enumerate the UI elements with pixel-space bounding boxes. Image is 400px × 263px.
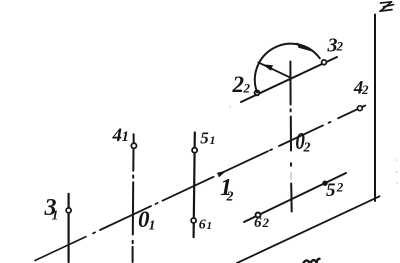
node 3_1 joint circle <box>66 208 71 213</box>
svg-text:5: 5 <box>200 128 209 147</box>
arrow 1_2 on axis <box>217 171 227 178</box>
label x at bottom edge (clipped) <box>304 259 320 263</box>
rotation arc around O2 crossing <box>255 44 320 93</box>
svg-text:1: 1 <box>207 220 213 232</box>
node 4_1 joint circle <box>131 143 136 148</box>
wire: axis dot 1 <box>93 231 95 234</box>
wire: axis dot 4 <box>329 121 331 124</box>
node 3_2 joint circle <box>322 60 327 65</box>
faint scan speckles <box>229 106 398 184</box>
centerline O1 dash a <box>132 149 134 171</box>
node 5_1 joint circle <box>192 148 197 153</box>
svg-text:1: 1 <box>149 219 156 234</box>
wire: main dash-dot axis segment 3 <box>163 177 214 201</box>
svg-text:4: 4 <box>112 125 123 146</box>
centerline O2 dot a <box>290 109 292 111</box>
x axis diagonal line bottom right <box>237 196 380 263</box>
label Z (hand-written with crossbar) <box>380 2 394 11</box>
centerline O2 dash c through crossing with link 6_2-5_2 <box>290 184 293 212</box>
node 6_1 joint circle <box>191 218 196 223</box>
svg-text:1: 1 <box>52 209 59 224</box>
svg-text:6: 6 <box>254 215 262 231</box>
node 4_2 joint circle <box>358 106 363 111</box>
centerline O1 dash c <box>132 247 134 262</box>
node 2_2 joint circle <box>255 91 260 96</box>
wire: axis dot 3 <box>270 148 272 151</box>
rotation arc arrowhead (clockwise) <box>297 42 314 52</box>
radius arrow from crossing to arc <box>258 62 289 77</box>
wire: axis dot 2 <box>156 203 158 204</box>
centerline through O1 (vertical dash-dot) stub above node 4_1 <box>133 134 135 143</box>
svg-text:6: 6 <box>199 217 206 232</box>
svg-text:2: 2 <box>361 82 369 97</box>
svg-text:2: 2 <box>232 72 245 97</box>
svg-text:5: 5 <box>326 180 336 201</box>
link line through node 3_1 (vertical) <box>67 194 69 262</box>
svg-text:2: 2 <box>262 215 270 230</box>
centerline O2 faint dash <box>290 173 292 180</box>
centerline O2 dash b through O2 <box>290 117 292 151</box>
node 5_2 joint dot <box>323 181 327 185</box>
svg-text:2: 2 <box>336 180 344 195</box>
svg-text:2: 2 <box>243 81 251 96</box>
link line 6_2-5_2 <box>244 173 346 222</box>
link line 2_2-3_2 <box>241 57 337 102</box>
node 6_2 joint circle <box>256 213 261 218</box>
centerline O1 dot b <box>132 241 134 244</box>
svg-text:2: 2 <box>226 190 234 205</box>
svg-text:1: 1 <box>122 129 130 145</box>
svg-text:1: 1 <box>210 133 216 147</box>
wire: main dash-dot axis segment 6 to node 4_2 <box>338 106 365 119</box>
wire: main dash-dot axis segment 5 through O2 <box>279 125 323 146</box>
centerline O1 dash b through O1 <box>132 182 134 234</box>
link line 5_1-6_1 (vertical) <box>194 133 195 238</box>
wire: main dash-dot axis segment 4 <box>221 151 268 173</box>
svg-text:2: 2 <box>336 39 344 54</box>
wire: main dash-dot axis segment 2 through O1 <box>100 206 151 230</box>
centerline O2 dot b <box>290 163 292 166</box>
centerline through O2 (vertical) dash a <box>289 62 291 105</box>
svg-text:2: 2 <box>303 141 311 156</box>
centerline O1 dot a <box>132 176 134 178</box>
radius arrowhead <box>263 64 274 71</box>
Z axis vertical line <box>374 15 376 202</box>
wire: main dash-dot axis O1-O2 segment 1 <box>35 237 86 261</box>
